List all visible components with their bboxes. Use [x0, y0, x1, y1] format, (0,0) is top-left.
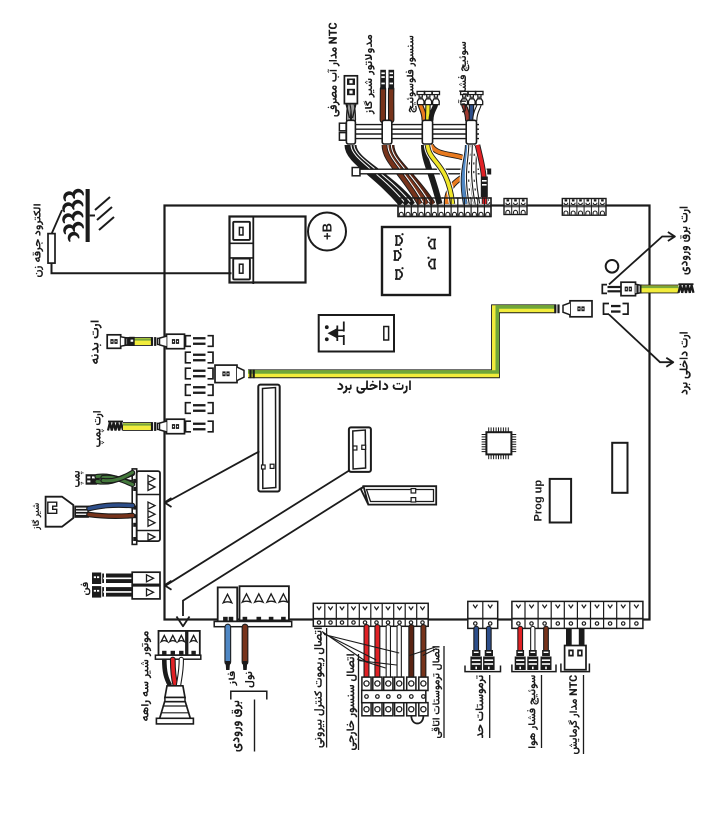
svg-text:+B: +B	[320, 223, 335, 240]
svg-text:Prog up: Prog up	[533, 480, 545, 522]
